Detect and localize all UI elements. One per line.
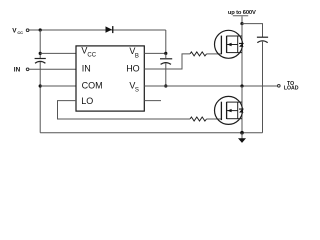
resistor R2 low-side gate bbox=[190, 117, 207, 121]
node VB junction bbox=[164, 52, 167, 55]
node ground junction bbox=[240, 131, 244, 135]
wire VCC pin bbox=[40, 52, 76, 54]
node junction top-left bbox=[39, 28, 42, 31]
svg-text:HO: HO bbox=[126, 64, 140, 74]
wire drain-source bus low bbox=[241, 86, 243, 133]
transistor Q1 high-side MOSFET bbox=[215, 30, 244, 58]
capacitor C2 bootstrap bbox=[160, 59, 172, 65]
diode D1 bootstrap bbox=[106, 26, 114, 33]
svg-text:S: S bbox=[135, 88, 139, 94]
svg-text:COM: COM bbox=[82, 80, 103, 90]
node TO LOAD junction bbox=[240, 84, 243, 87]
wire R2 to gate bbox=[207, 118, 222, 120]
svg-text:IN: IN bbox=[82, 63, 91, 73]
wire 600V to bus cap bbox=[242, 24, 263, 38]
node 600V junction bbox=[240, 22, 243, 25]
terminal IN bbox=[26, 68, 29, 71]
terminal TO LOAD bbox=[278, 85, 281, 88]
svg-text:CC: CC bbox=[87, 52, 96, 58]
wire NC stub bbox=[144, 100, 161, 102]
wire R1 to gate bbox=[207, 53, 222, 55]
svg-text:IN: IN bbox=[14, 67, 21, 74]
wire LO pin with corner bbox=[58, 101, 191, 119]
node VCC row junction bbox=[39, 52, 42, 55]
wire bootstrap cap to VS bbox=[165, 53, 167, 58]
svg-text:up to 600V: up to 600V bbox=[228, 10, 256, 16]
wire VB pin bbox=[144, 52, 166, 54]
transistor Q2 low-side MOSFET bbox=[215, 96, 244, 124]
wire VB corner drop bbox=[165, 30, 167, 53]
ground symbol bbox=[241, 133, 243, 139]
svg-text:LO: LO bbox=[81, 96, 93, 106]
svg-text:B: B bbox=[135, 54, 139, 60]
wire left vertical bus bbox=[39, 30, 41, 59]
node VS junction bbox=[164, 84, 167, 87]
wire bus cap to ground rail bbox=[262, 42, 264, 133]
wire IN pin bbox=[29, 68, 76, 70]
node COM row junction bbox=[39, 84, 42, 87]
IC U1 gate driver box bbox=[76, 46, 144, 111]
capacitor C3 bus bbox=[257, 37, 268, 42]
svg-text:LOAD: LOAD bbox=[284, 86, 299, 92]
wire VS rail to load bbox=[144, 85, 277, 87]
wire drain-source bus high bbox=[241, 24, 243, 86]
svg-text:CC: CC bbox=[17, 30, 23, 35]
capacitor C1 Vcc decoupling bbox=[35, 59, 46, 64]
wire bottom ground rail bbox=[40, 132, 262, 134]
wire 600V lead bbox=[241, 16, 243, 23]
resistor R1 high-side gate bbox=[190, 52, 207, 56]
wire HO pin with corner bbox=[144, 54, 190, 69]
terminal Vcc bbox=[26, 29, 29, 32]
wire COM pin bbox=[40, 85, 76, 87]
wire top Vcc rail bbox=[29, 29, 166, 31]
